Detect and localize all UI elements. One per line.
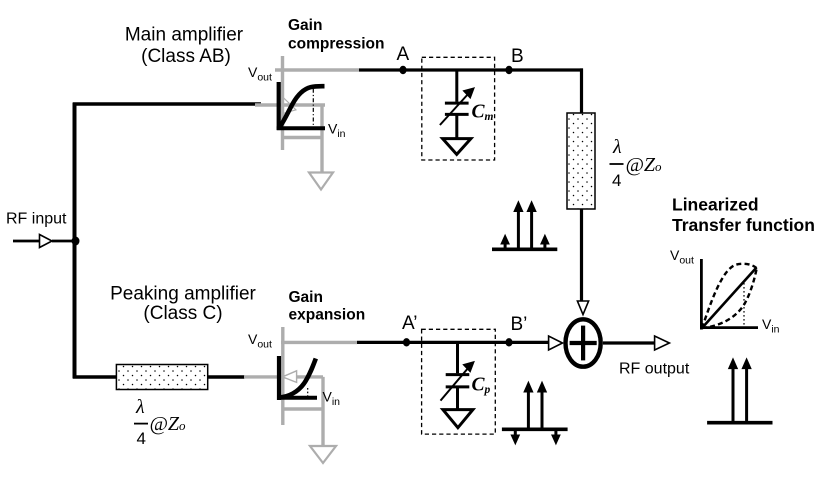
dotted guide line bbox=[743, 283, 745, 327]
ground (Cm) bbox=[443, 139, 471, 155]
wire: peaking transmission line to peaking amplifier bbox=[208, 375, 245, 378]
capacitor Cm (variable) bbox=[440, 71, 474, 139]
graph axes bbox=[700, 259, 703, 330]
arrowhead into summer (left, hollow) bbox=[549, 336, 563, 350]
svg-text:Gain: Gain bbox=[289, 289, 323, 306]
svg-text:Linearized: Linearized bbox=[672, 195, 759, 215]
svg-text:λ: λ bbox=[612, 136, 622, 158]
dashed box around Cp bbox=[422, 329, 496, 434]
svg-text:RF output: RF output bbox=[619, 361, 690, 378]
svg-text:Transfer function: Transfer function bbox=[672, 215, 815, 235]
main amplifier transfer curve: gain compression bbox=[277, 82, 325, 130]
node A bbox=[399, 66, 406, 74]
wire: node B corner down to output transmission line bbox=[580, 68, 583, 114]
node A' bbox=[403, 338, 410, 346]
label: Main amplifier (Class AB) bbox=[125, 25, 244, 68]
svg-text:Main amplifier: Main amplifier bbox=[125, 25, 244, 46]
svg-text:A: A bbox=[397, 44, 410, 65]
svg-text:B: B bbox=[511, 46, 524, 67]
wire: top branch into main amplifier bbox=[73, 102, 261, 105]
svg-text:A’: A’ bbox=[402, 313, 417, 334]
label: Linearized Transfer function bbox=[672, 195, 815, 236]
svg-text:(Class AB): (Class AB) bbox=[141, 46, 231, 67]
dashed compression curve bbox=[702, 264, 757, 328]
wire: transmission line down to summer bbox=[580, 209, 583, 302]
svg-text:4: 4 bbox=[612, 171, 621, 190]
spectrum arrows group 1 (after main amp, IMD upright) bbox=[492, 202, 557, 250]
wire: summer output bbox=[603, 341, 656, 344]
label: λ/4 @Zo (top) bbox=[610, 136, 663, 190]
node: input splitter junction bbox=[72, 237, 80, 246]
svg-text:RF input: RF input bbox=[6, 211, 67, 228]
RF input source arrow bbox=[13, 235, 74, 248]
wire: main amplifier output to node B bbox=[359, 68, 583, 71]
ground (peaking amplifier, gray) bbox=[310, 446, 336, 463]
arrowhead RF output (hollow) bbox=[655, 336, 670, 350]
svg-text:4: 4 bbox=[137, 429, 146, 448]
capacitor Cp (variable) bbox=[441, 342, 475, 410]
solid linearized line bbox=[702, 268, 757, 329]
spectrum arrows group 3 (RF output, clean carriers) bbox=[707, 359, 772, 423]
peaking amplifier transfer curve: gain expansion bbox=[277, 356, 317, 400]
dashed box around Cm bbox=[422, 57, 495, 160]
transmission line λ/4 @Zo (main output), dotted rect bbox=[567, 113, 595, 209]
summer (+) bbox=[566, 319, 601, 366]
transmission line λ/4 @Zo (peaking input), dotted rect bbox=[116, 365, 207, 390]
label: Gain compression bbox=[288, 17, 384, 53]
node B' bbox=[505, 338, 512, 346]
arrowhead into summer (top, hollow) bbox=[577, 301, 588, 315]
wire: peaking output to node B' and summer bbox=[357, 341, 549, 344]
svg-text:λ: λ bbox=[135, 396, 145, 418]
svg-text:Gain: Gain bbox=[288, 17, 322, 34]
svg-text:B’: B’ bbox=[511, 314, 528, 335]
peaking amplifier U2 gray device symbol bbox=[244, 327, 357, 446]
ground (Cp) bbox=[443, 410, 473, 428]
linearized transfer function graph bbox=[700, 259, 758, 330]
svg-text:compression: compression bbox=[288, 36, 384, 53]
label: Gain expansion bbox=[289, 289, 366, 324]
arrowhead on peaking amp input (hollow, gray) bbox=[283, 371, 297, 383]
ground (main amplifier, gray) bbox=[309, 173, 333, 190]
svg-text:Peaking amplifier: Peaking amplifier bbox=[110, 284, 256, 305]
wire: bottom branch to peaking transmission line bbox=[73, 375, 117, 378]
dashed expansion curve bbox=[702, 268, 757, 328]
node B bbox=[505, 66, 512, 74]
wire: splitter vertical trunk bbox=[73, 103, 77, 379]
svg-text:expansion: expansion bbox=[289, 307, 366, 324]
main amplifier U1 gray device symbol bbox=[255, 56, 359, 173]
label: λ/4 @Zo (bottom) bbox=[134, 396, 186, 448]
spectrum arrows group 2 (after peaking amp, IMD inverted) bbox=[502, 382, 568, 444]
label: Peaking amplifier (Class C) bbox=[110, 284, 256, 325]
svg-text:(Class C): (Class C) bbox=[143, 303, 222, 324]
